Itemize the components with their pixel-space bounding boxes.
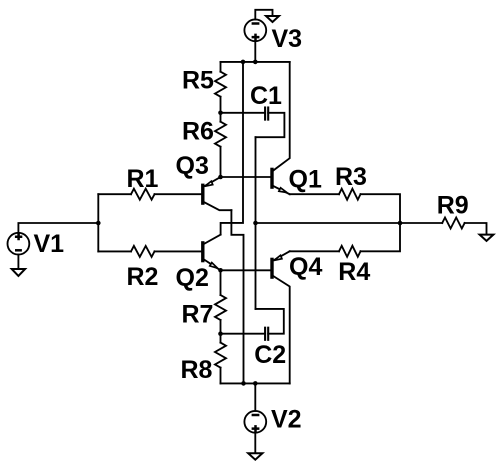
Q3 collector bbox=[204, 202, 231, 210]
resistor R6 bbox=[215, 122, 226, 147]
Q2 base bar bbox=[201, 243, 204, 261]
transistor Q4 bbox=[272, 251, 290, 383]
junction dot C2 tap bbox=[218, 331, 223, 336]
transistor Q1 bbox=[272, 62, 290, 194]
wire V3 top to ground bbox=[255, 10, 272, 20]
wire R1 to Q3 base bbox=[155, 193, 203, 195]
V1 plus sign bbox=[15, 233, 22, 240]
middle wire to R9 bbox=[256, 222, 443, 224]
svg-text:C1: C1 bbox=[250, 82, 282, 110]
wire rail to R5 bbox=[220, 62, 222, 72]
ground at V2 bbox=[248, 453, 262, 459]
C2 right wire hook bbox=[256, 309, 284, 334]
node splitting to R1/R2 bbox=[97, 194, 99, 251]
transistor Q3 bbox=[203, 177, 232, 210]
Q1 emitter arrow (NPN, points out) bbox=[279, 188, 287, 193]
svg-text:R9: R9 bbox=[437, 191, 469, 219]
voltage source V2 bbox=[244, 411, 266, 433]
junction dot mid node bbox=[253, 221, 258, 226]
Q2 emitter arrow (NPN, points out) bbox=[210, 263, 218, 269]
capacitor C1 bbox=[221, 108, 285, 138]
Q1 collector bbox=[273, 62, 289, 170]
svg-text:R2: R2 bbox=[127, 263, 159, 291]
V2 minus sign bbox=[252, 414, 260, 417]
svg-text:C2: C2 bbox=[254, 341, 286, 369]
svg-text:R5: R5 bbox=[182, 66, 214, 94]
wire node to Q1 base bbox=[221, 176, 271, 178]
top rail bbox=[221, 61, 290, 63]
transistor Q2 bbox=[203, 235, 221, 271]
svg-text:R3: R3 bbox=[335, 163, 367, 191]
junction dot C1 tap bbox=[218, 111, 223, 116]
svg-text:V2: V2 bbox=[271, 406, 302, 434]
resistor R1 bbox=[131, 189, 155, 200]
resistor R4 bbox=[339, 246, 361, 257]
junction dot V1 node bbox=[96, 221, 101, 226]
junction dot Q3 emitter node bbox=[218, 175, 223, 180]
wire Q1 emitter to R3 bbox=[290, 193, 339, 195]
Q4 emitter arrow (PNP, points to base) bbox=[274, 255, 282, 260]
wire R2 to Q2 base bbox=[155, 250, 203, 252]
Q1 base bar bbox=[270, 169, 273, 187]
ground at V3 bbox=[266, 16, 279, 22]
hook vertical to mid node bbox=[255, 137, 257, 309]
svg-text:Q1: Q1 bbox=[289, 166, 322, 194]
C2 left wire bbox=[221, 333, 266, 335]
Q4 base bar bbox=[270, 259, 273, 277]
resistor R8 bbox=[215, 343, 226, 368]
svg-text:R7: R7 bbox=[182, 300, 214, 328]
resistor R5 bbox=[215, 72, 226, 97]
svg-text:R8: R8 bbox=[181, 356, 213, 384]
Q2 emitter bbox=[204, 260, 220, 271]
svg-text:V3: V3 bbox=[272, 25, 303, 53]
wire V1 bottom bbox=[17, 255, 19, 269]
wire R8 to rail bbox=[220, 368, 222, 384]
capacitor C2 bbox=[221, 309, 284, 340]
Q1 emitter bbox=[273, 186, 289, 194]
junction dot V2 at rail bbox=[253, 381, 258, 386]
svg-text:V1: V1 bbox=[34, 230, 65, 258]
resistor R9 bbox=[442, 218, 464, 229]
ground at R9 bbox=[480, 235, 494, 241]
wire V3 bottom to rail bbox=[254, 41, 256, 62]
Q3 emitter bbox=[204, 177, 220, 186]
junction dot output node bbox=[398, 221, 403, 226]
wire R3 to output node bbox=[361, 194, 401, 223]
junction dot Q2 emitter node bbox=[218, 268, 223, 273]
junction dot Q3 collector at bottom rail bbox=[241, 381, 246, 386]
wire R4 to output node bbox=[361, 223, 401, 251]
wire node to R7 bbox=[220, 270, 222, 295]
Q2 collector path to top rail bbox=[221, 62, 243, 235]
wire V2 bottom to ground bbox=[254, 433, 256, 454]
junction dot V3 at rail bbox=[253, 60, 258, 65]
Q3 base bar bbox=[201, 185, 204, 203]
wire node to Q4 base bbox=[221, 269, 271, 271]
wire to R2 bbox=[98, 250, 131, 252]
Q4 collector bbox=[273, 276, 289, 383]
C2 plates bbox=[264, 328, 266, 340]
V3 minus sign bbox=[252, 22, 260, 25]
Q3 collector path to bottom rail bbox=[231, 210, 243, 383]
V3 plus sign bbox=[252, 34, 260, 41]
V1 minus sign bbox=[15, 249, 22, 252]
C1 left wire bbox=[221, 112, 266, 114]
V2 plus sign bbox=[252, 425, 260, 432]
resistor R3 bbox=[339, 189, 361, 200]
ground under V1 bbox=[12, 269, 25, 276]
wire R9 to ground bbox=[465, 223, 487, 235]
wire Q4 emitter to R4 bbox=[290, 250, 339, 252]
junction dot Q2 collector at top rail bbox=[241, 60, 246, 65]
svg-text:R4: R4 bbox=[338, 258, 370, 286]
wire R7 to R8 bbox=[220, 320, 222, 343]
C1 right wire hook bbox=[256, 113, 285, 137]
svg-text:Q2: Q2 bbox=[176, 264, 209, 292]
Q4 emitter bbox=[273, 251, 289, 260]
wire R6 to Q3 emitter node bbox=[220, 147, 222, 177]
wire R5 to R6 bbox=[220, 97, 222, 122]
C1 plates bbox=[264, 108, 266, 120]
voltage source V3 bbox=[244, 19, 266, 41]
wire to R1 bbox=[98, 193, 131, 195]
bottom rail bbox=[221, 382, 290, 384]
wire V1 top to node bbox=[18, 223, 98, 233]
svg-text:Q4: Q4 bbox=[289, 253, 322, 281]
resistor R2 bbox=[131, 246, 155, 257]
resistor R7 bbox=[215, 295, 226, 320]
wire V2 top to rail bbox=[254, 383, 256, 411]
voltage source V1 bbox=[8, 233, 30, 255]
svg-text:R1: R1 bbox=[127, 165, 159, 193]
svg-text:Q3: Q3 bbox=[176, 152, 209, 180]
Q3 emitter arrow (PNP, points to base) bbox=[205, 181, 213, 186]
svg-text:R6: R6 bbox=[182, 117, 214, 145]
Q2 collector bbox=[204, 235, 220, 244]
